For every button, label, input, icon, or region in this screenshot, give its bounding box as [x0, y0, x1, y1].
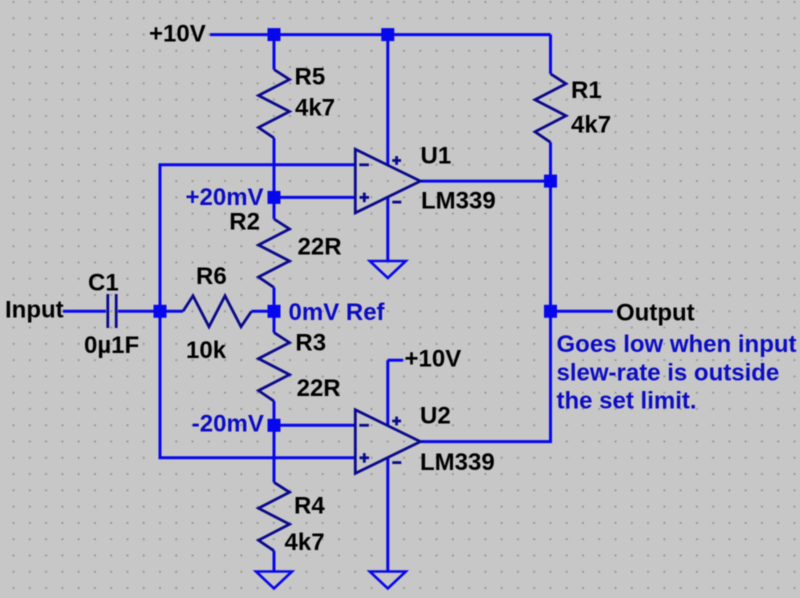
- wire R5 bottom lead to +20mV node: [273, 138, 276, 197]
- wire -20mV node to U2 minus input: [274, 424, 355, 427]
- svg-text:0mV Ref: 0mV Ref: [289, 299, 386, 326]
- resistor R1: [535, 74, 566, 143]
- node -20mV: [268, 419, 281, 432]
- op-amp U1 minus input mark: [359, 163, 369, 166]
- wire input bypass down to U2 plus input: [160, 311, 355, 458]
- op-amp U2 supply minus mark: [392, 461, 401, 464]
- resistor R2: [259, 219, 290, 288]
- wire Output stub: [551, 310, 614, 313]
- svg-text:slew-rate is outside: slew-rate is outside: [557, 360, 780, 387]
- resistor R5: [259, 70, 290, 139]
- svg-text:Goes low when input: Goes low when input: [557, 331, 797, 358]
- wire U2 +10V label stub: [388, 359, 403, 362]
- svg-text:0µ1F: 0µ1F: [84, 332, 139, 359]
- wire U2 supply below triangle: [386, 457, 389, 571]
- op-amp U1 supply plus mark: [392, 156, 401, 165]
- wire R3 bottom lead to -20mV node: [273, 401, 276, 425]
- ground under R4: [256, 572, 292, 589]
- wire input node to R6: [160, 310, 183, 313]
- resistor R6: [183, 296, 252, 327]
- svg-text:R5: R5: [295, 64, 326, 91]
- node +20mV: [268, 191, 281, 204]
- op-amp U2: [355, 410, 420, 474]
- svg-text:U2: U2: [420, 403, 451, 430]
- wire R3 top lead: [273, 311, 276, 332]
- svg-text:R1: R1: [571, 77, 602, 104]
- wire input bypass up to U1 minus input: [160, 165, 355, 311]
- svg-text:-20mV: -20mV: [192, 411, 264, 438]
- svg-text:10k: 10k: [186, 337, 227, 364]
- node Output: [544, 305, 557, 318]
- node junction input / C1 / R6: [154, 305, 167, 318]
- resistor R4: [259, 482, 290, 551]
- wire R5 top lead: [273, 35, 276, 70]
- svg-text:+10V: +10V: [405, 346, 462, 373]
- node 0mV Ref: [268, 305, 281, 318]
- wire U1 supply below triangle: [386, 197, 389, 261]
- wire U2 supply column: [386, 360, 389, 426]
- svg-text:LM339: LM339: [420, 449, 495, 476]
- svg-text:Input: Input: [5, 297, 64, 324]
- svg-text:+10V: +10V: [149, 21, 206, 48]
- svg-text:4k7: 4k7: [285, 529, 325, 556]
- wire R2 top lead: [273, 197, 276, 219]
- svg-text:Output: Output: [616, 300, 695, 327]
- svg-text:R2: R2: [229, 209, 260, 236]
- resistor R3: [259, 333, 290, 402]
- wire top +10V rail: [210, 33, 551, 36]
- wire output column to U2 output: [420, 181, 550, 442]
- wire C1 to input node: [118, 310, 160, 313]
- svg-text:R6: R6: [196, 263, 227, 290]
- node junction U1 output / R1: [544, 175, 557, 188]
- svg-text:22R: 22R: [298, 234, 342, 261]
- ground under U2: [370, 572, 406, 589]
- svg-text:U1: U1: [421, 143, 452, 170]
- wire R6 to 0mV node: [252, 310, 275, 313]
- ground under U1: [370, 261, 406, 278]
- op-amp U1 supply minus mark: [392, 201, 401, 204]
- op-amp U1: [355, 149, 420, 213]
- wire R1 bottom lead to U1 output node: [549, 142, 552, 181]
- wire R4 top lead: [273, 425, 276, 482]
- wire U1 supply column: [386, 35, 389, 166]
- wire +20mV node to U1 plus input: [274, 196, 355, 199]
- svg-text:C1: C1: [88, 270, 119, 297]
- op-amp U1 plus input mark: [360, 193, 370, 203]
- op-amp U2 supply plus mark: [392, 417, 401, 426]
- svg-text:R3: R3: [295, 330, 326, 357]
- svg-text:4k7: 4k7: [295, 95, 335, 122]
- wire R1 top lead from rail corner: [549, 35, 552, 74]
- capacitor C1: [108, 294, 116, 328]
- wire U1 output: [420, 180, 550, 183]
- svg-text:LM339: LM339: [421, 188, 496, 215]
- wire Input to C1: [63, 310, 106, 313]
- svg-text:+20mV: +20mV: [186, 184, 264, 211]
- op-amp U2 plus input mark: [360, 453, 370, 463]
- wire R4 bottom lead to ground: [273, 551, 276, 572]
- svg-text:the set limit.: the set limit.: [557, 388, 697, 415]
- svg-text:4k7: 4k7: [571, 112, 611, 139]
- svg-text:22R: 22R: [297, 375, 341, 402]
- wire R2 bottom lead to 0mV node: [273, 288, 276, 312]
- node junction on rail at R5: [268, 28, 281, 41]
- op-amp U2 minus input mark: [359, 424, 369, 427]
- node junction on rail at U1 supply: [381, 28, 394, 41]
- svg-text:R4: R4: [294, 493, 325, 520]
